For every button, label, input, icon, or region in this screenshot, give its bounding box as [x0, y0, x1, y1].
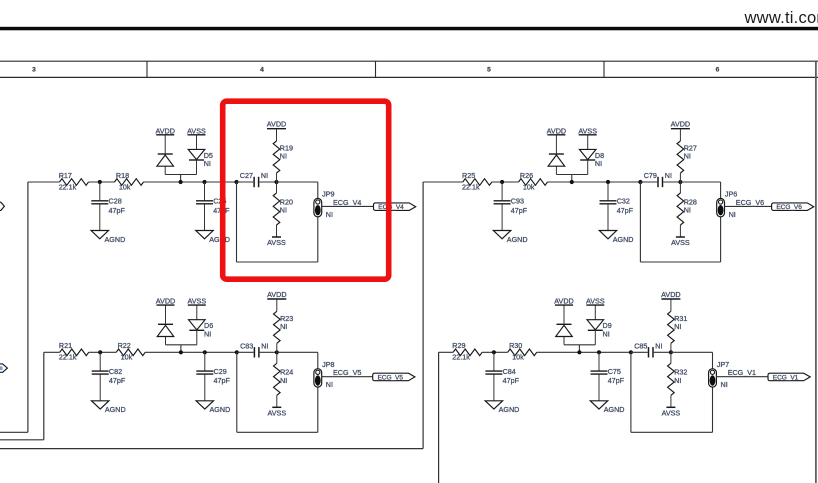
svg-text:NI: NI	[280, 206, 287, 215]
svg-text:10k: 10k	[119, 182, 131, 191]
svg-text:AGND: AGND	[209, 235, 230, 244]
svg-text:C83: C83	[240, 341, 253, 350]
svg-text:NI: NI	[729, 210, 736, 219]
svg-text:R26: R26	[520, 171, 533, 180]
svg-text:6: 6	[716, 67, 720, 74]
svg-text:22.1k: 22.1k	[59, 353, 77, 362]
svg-text:NI: NI	[280, 152, 287, 161]
svg-text:NI: NI	[280, 376, 287, 385]
svg-text:ECG_V6: ECG_V6	[776, 204, 802, 211]
svg-text:NI: NI	[684, 152, 691, 161]
svg-text:C32: C32	[617, 197, 630, 206]
svg-text:5: 5	[487, 67, 491, 74]
svg-text:AVSS: AVSS	[187, 297, 206, 306]
svg-text:C85: C85	[634, 341, 647, 350]
svg-text:AVSS: AVSS	[267, 408, 286, 417]
svg-text:NI: NI	[326, 210, 333, 219]
svg-text:AVDD: AVDD	[547, 126, 566, 135]
svg-text:NI: NI	[261, 341, 268, 350]
svg-text:NI: NI	[655, 341, 662, 350]
svg-text:NI: NI	[326, 380, 333, 389]
svg-text:AGND: AGND	[499, 405, 520, 414]
svg-text:NI: NI	[674, 376, 681, 385]
svg-text:NI: NI	[603, 330, 610, 339]
svg-text:NI: NI	[721, 380, 728, 389]
svg-text:C75: C75	[608, 367, 621, 376]
svg-text:AGND: AGND	[507, 235, 528, 244]
svg-text:47pF: 47pF	[214, 376, 231, 385]
svg-text:ECG_V1: ECG_V1	[728, 368, 756, 377]
svg-text:C82: C82	[109, 367, 122, 376]
svg-text:AVSS: AVSS	[671, 238, 690, 247]
svg-text:AVDD: AVDD	[267, 290, 286, 299]
svg-text:ECG_V5: ECG_V5	[377, 375, 403, 382]
svg-text:AVSS: AVSS	[187, 126, 206, 135]
svg-text:AVDD: AVDD	[156, 297, 175, 306]
svg-text:4: 4	[260, 67, 264, 74]
svg-text:AVDD: AVDD	[155, 126, 174, 135]
svg-text:R25: R25	[462, 171, 475, 180]
svg-text:C84: C84	[503, 367, 516, 376]
svg-text:NI: NI	[595, 159, 602, 168]
svg-text:C93: C93	[511, 197, 524, 206]
svg-text:10k: 10k	[121, 353, 133, 362]
svg-text:AVSS: AVSS	[578, 126, 597, 135]
svg-text:3: 3	[32, 67, 36, 74]
svg-text:10k: 10k	[523, 182, 535, 191]
svg-text:AGND: AGND	[604, 405, 625, 414]
svg-text:NI: NI	[280, 322, 287, 331]
svg-text:AGND: AGND	[105, 235, 126, 244]
svg-text:22.1k: 22.1k	[59, 182, 77, 191]
svg-text:NI: NI	[684, 206, 691, 215]
svg-text:AVSS: AVSS	[267, 238, 286, 247]
svg-text:AVSS: AVSS	[662, 408, 681, 417]
svg-text:10k: 10k	[512, 353, 524, 362]
svg-text:R17: R17	[59, 171, 72, 180]
svg-text:NI: NI	[665, 171, 672, 180]
svg-text:ECG_V5: ECG_V5	[333, 368, 361, 377]
svg-text:C28: C28	[109, 197, 122, 206]
svg-text:47pF: 47pF	[109, 376, 126, 385]
svg-text:R22: R22	[118, 341, 131, 350]
svg-text:22.1k: 22.1k	[462, 182, 480, 191]
svg-text:47pF: 47pF	[511, 206, 528, 215]
svg-text:AGND: AGND	[613, 235, 634, 244]
svg-text:ECG_V1: ECG_V1	[773, 375, 799, 382]
svg-text:ECG_V4: ECG_V4	[333, 198, 361, 207]
svg-text:C27: C27	[240, 171, 253, 180]
svg-text:47pF: 47pF	[617, 206, 634, 215]
svg-text:AVDD: AVDD	[267, 120, 286, 129]
svg-text:47pF: 47pF	[109, 206, 126, 215]
svg-text:www.ti.com: www.ti.com	[744, 8, 818, 27]
svg-text:AGND: AGND	[105, 405, 126, 414]
svg-text:47pF: 47pF	[503, 376, 520, 385]
svg-text:R30: R30	[509, 341, 522, 350]
svg-text:C29: C29	[214, 367, 227, 376]
svg-text:AVDD: AVDD	[671, 120, 690, 129]
svg-text:NI: NI	[261, 171, 268, 180]
svg-text:NI: NI	[674, 322, 681, 331]
svg-text:AVDD: AVDD	[554, 297, 573, 306]
svg-text:R18: R18	[116, 171, 129, 180]
svg-text:AVDD: AVDD	[661, 290, 680, 299]
svg-text:NI: NI	[204, 159, 211, 168]
svg-text:AVSS: AVSS	[586, 297, 605, 306]
svg-text:ECG_V6: ECG_V6	[736, 198, 764, 207]
svg-text:47pF: 47pF	[608, 376, 625, 385]
svg-text:C79: C79	[644, 171, 657, 180]
svg-text:22.1k: 22.1k	[452, 353, 470, 362]
svg-text:AGND: AGND	[210, 405, 231, 414]
svg-text:R29: R29	[452, 341, 465, 350]
svg-text:R21: R21	[59, 341, 72, 350]
svg-text:NI: NI	[204, 330, 211, 339]
